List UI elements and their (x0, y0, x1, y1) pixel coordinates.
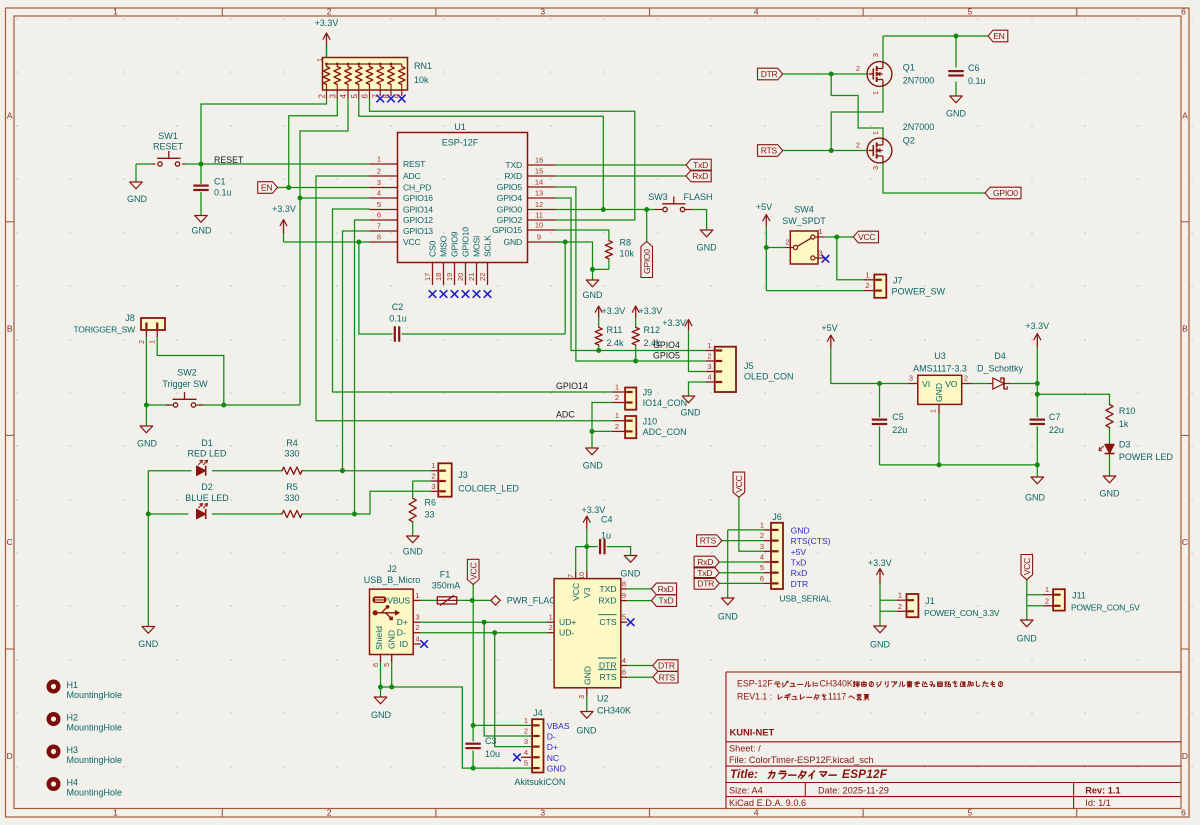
svg-text:Id: 1/1: Id: 1/1 (1085, 798, 1111, 808)
svg-text:22u: 22u (892, 425, 907, 435)
svg-text:GND: GND (192, 226, 213, 236)
svg-text:VBUS: VBUS (387, 596, 410, 606)
svg-text:ADC: ADC (556, 410, 575, 420)
svg-text:Title:: Title: (730, 767, 758, 781)
svg-text:7: 7 (377, 222, 381, 231)
svg-text:MOSI: MOSI (472, 236, 482, 257)
svg-text:C7: C7 (1049, 412, 1061, 422)
svg-text:GPIO2: GPIO2 (497, 215, 523, 225)
svg-text:V3: V3 (582, 587, 592, 598)
svg-text:A: A (1182, 111, 1188, 121)
svg-text:RxD: RxD (697, 557, 713, 567)
svg-text:3: 3 (760, 542, 764, 551)
svg-text:ESP-12F: ESP-12F (442, 138, 479, 148)
svg-text:GPIO13: GPIO13 (403, 226, 433, 236)
svg-text:CH340K: CH340K (820, 679, 853, 689)
svg-text:GPIO10: GPIO10 (461, 227, 471, 257)
svg-text:RXD: RXD (504, 171, 522, 181)
svg-text:J9: J9 (643, 388, 653, 398)
svg-text:POWER_CON_3.3V: POWER_CON_3.3V (924, 608, 1000, 618)
svg-text:1: 1 (898, 591, 902, 600)
svg-text:3: 3 (415, 613, 419, 622)
svg-text:POWER_CON_5V: POWER_CON_5V (1071, 603, 1140, 613)
svg-text:2N7000: 2N7000 (903, 122, 935, 132)
svg-text:350mA: 350mA (432, 581, 461, 591)
svg-text:10k: 10k (620, 249, 635, 259)
svg-text:14: 14 (535, 178, 543, 187)
svg-text:ADC_CON: ADC_CON (643, 427, 687, 437)
svg-text:J11: J11 (1072, 591, 1086, 601)
svg-text:2: 2 (865, 281, 869, 290)
svg-text:Q1: Q1 (903, 63, 915, 73)
svg-text:VCC: VCC (468, 563, 478, 580)
svg-text:4: 4 (754, 7, 759, 17)
svg-text:10k: 10k (414, 75, 429, 85)
svg-text:2: 2 (615, 422, 619, 431)
svg-text:8: 8 (377, 233, 381, 242)
svg-text:VI: VI (922, 379, 930, 389)
svg-text:GND: GND (577, 726, 598, 736)
svg-text:DTR: DTR (791, 579, 809, 589)
svg-text:3: 3 (540, 7, 545, 17)
svg-text:AkitsukiCON: AkitsukiCON (514, 777, 565, 787)
svg-text:GPIO4: GPIO4 (497, 193, 523, 203)
svg-text:GPIO14: GPIO14 (556, 381, 588, 391)
svg-text:3: 3 (524, 737, 528, 746)
svg-text:1: 1 (615, 383, 619, 392)
svg-text:Trigger SW: Trigger SW (162, 379, 208, 389)
svg-text:+5V: +5V (791, 547, 807, 557)
svg-text:+3.3V: +3.3V (1025, 321, 1049, 331)
svg-text:9: 9 (622, 591, 626, 600)
svg-text:TxD: TxD (659, 596, 674, 606)
svg-text:GND: GND (1100, 489, 1121, 499)
svg-text:2: 2 (856, 64, 860, 73)
svg-text:GND: GND (583, 461, 604, 471)
svg-text:Q2: Q2 (903, 136, 915, 146)
svg-text:MountingHole: MountingHole (67, 690, 123, 700)
svg-text:1: 1 (315, 58, 324, 62)
svg-text:B: B (7, 324, 13, 334)
svg-text:1: 1 (707, 341, 711, 350)
svg-text:GND: GND (137, 439, 158, 449)
svg-text:GPIO15: GPIO15 (492, 225, 522, 235)
svg-text:RTS(CTS): RTS(CTS) (791, 536, 831, 546)
svg-text:GND: GND (1025, 493, 1046, 503)
svg-text:GND: GND (791, 525, 810, 535)
svg-text:GND: GND (583, 666, 593, 685)
svg-text:USB_B_Micro: USB_B_Micro (364, 575, 421, 585)
svg-text:RXD: RXD (598, 596, 616, 606)
svg-text:GND: GND (371, 710, 392, 720)
svg-text:2: 2 (1045, 596, 1049, 605)
svg-text:GND: GND (583, 290, 604, 300)
svg-text:MountingHole: MountingHole (67, 755, 123, 765)
svg-text:GND: GND (1017, 634, 1038, 644)
svg-text:5: 5 (622, 613, 626, 622)
svg-text:RTS: RTS (761, 146, 778, 156)
svg-text:ADC: ADC (403, 171, 421, 181)
svg-text:6: 6 (377, 211, 381, 220)
svg-text:VCC: VCC (403, 237, 421, 247)
svg-text:3: 3 (909, 374, 913, 383)
svg-text:R12: R12 (644, 325, 661, 335)
svg-text:UD-: UD- (559, 628, 574, 638)
svg-text:GND: GND (138, 639, 159, 649)
svg-text:12: 12 (535, 200, 543, 209)
svg-text:+3.3V: +3.3V (662, 318, 686, 328)
svg-text:OLED_CON: OLED_CON (744, 372, 794, 382)
svg-text:D2: D2 (201, 482, 213, 492)
svg-text:RED LED: RED LED (187, 449, 227, 459)
svg-text:+3.3V: +3.3V (272, 204, 296, 214)
svg-text:KiCad E.D.A. 9.0.6: KiCad E.D.A. 9.0.6 (729, 798, 806, 808)
svg-text:+3.3V: +3.3V (639, 306, 663, 316)
svg-text:2: 2 (327, 7, 332, 17)
svg-text:6: 6 (361, 94, 370, 99)
svg-text:2: 2 (549, 623, 553, 632)
svg-text:1: 1 (524, 716, 528, 725)
svg-text:RxD: RxD (692, 171, 708, 181)
svg-text:J3: J3 (458, 470, 468, 480)
svg-text:RESET: RESET (214, 155, 244, 165)
svg-text:R11: R11 (607, 325, 623, 335)
svg-text:GND: GND (870, 640, 891, 650)
svg-text:3: 3 (579, 695, 586, 699)
svg-text:VO: VO (945, 379, 958, 389)
svg-text:2: 2 (415, 623, 419, 632)
svg-text:SW4: SW4 (794, 205, 814, 215)
svg-text:11: 11 (535, 211, 543, 220)
svg-text:1: 1 (931, 409, 938, 413)
svg-text:6: 6 (373, 663, 380, 667)
svg-text:2: 2 (856, 141, 860, 150)
svg-text:CH_PD: CH_PD (403, 183, 431, 193)
svg-text:15: 15 (535, 167, 543, 176)
svg-text:R5: R5 (286, 482, 298, 492)
svg-text:GND: GND (620, 569, 641, 579)
svg-text:R8: R8 (620, 238, 632, 248)
svg-text:GND: GND (504, 237, 523, 247)
svg-text:RTS: RTS (659, 672, 676, 682)
svg-text:D3: D3 (1119, 440, 1131, 450)
svg-text:J7: J7 (893, 276, 903, 286)
svg-text:6: 6 (760, 574, 764, 583)
svg-text:17: 17 (423, 273, 432, 281)
svg-text:0.1u: 0.1u (389, 314, 407, 324)
svg-text:SW1: SW1 (158, 131, 178, 141)
svg-text:1: 1 (615, 411, 619, 420)
svg-text:GND: GND (387, 630, 397, 649)
svg-text:RN1: RN1 (414, 61, 432, 71)
svg-text:DTR: DTR (697, 579, 714, 589)
svg-text:C4: C4 (601, 515, 613, 525)
svg-text:GPIO16: GPIO16 (403, 193, 433, 203)
svg-text:J6: J6 (772, 512, 782, 522)
svg-text:1: 1 (431, 461, 435, 470)
svg-text:EN: EN (261, 183, 272, 193)
svg-text:4: 4 (524, 748, 528, 757)
svg-text:1: 1 (113, 7, 118, 17)
svg-text:D4: D4 (994, 351, 1006, 361)
svg-text:GND: GND (127, 194, 148, 204)
svg-text:SW_SPDT: SW_SPDT (782, 216, 826, 226)
svg-text:SCLK: SCLK (483, 235, 493, 257)
svg-text:VBAS: VBAS (547, 721, 570, 731)
svg-text:RTS: RTS (600, 672, 617, 682)
svg-text:GND: GND (946, 109, 967, 119)
svg-text:Rev: 1.1: Rev: 1.1 (1085, 786, 1120, 796)
svg-text:2: 2 (615, 393, 619, 402)
svg-text:3: 3 (431, 482, 435, 491)
svg-text:USB_SERIAL: USB_SERIAL (779, 594, 831, 604)
svg-text:H4: H4 (67, 778, 79, 788)
svg-text:NC: NC (547, 753, 559, 763)
svg-text:5: 5 (384, 663, 391, 667)
svg-text:PWR_FLAG: PWR_FLAG (507, 596, 557, 606)
svg-text:2: 2 (318, 94, 327, 99)
svg-text:1: 1 (549, 613, 553, 622)
svg-text:22u: 22u (1049, 425, 1064, 435)
svg-text:2: 2 (524, 727, 528, 736)
svg-text:D: D (1182, 751, 1188, 761)
svg-text:9: 9 (537, 233, 541, 242)
svg-text:VCC: VCC (1022, 558, 1032, 575)
svg-text:DTR: DTR (599, 661, 617, 671)
svg-text:2: 2 (707, 352, 711, 361)
svg-text:1: 1 (150, 340, 157, 344)
svg-text:SW2: SW2 (177, 368, 197, 378)
svg-text:5: 5 (968, 808, 973, 818)
svg-text:+5V: +5V (821, 323, 837, 333)
svg-text:VCC: VCC (858, 232, 875, 242)
svg-text:TXD: TXD (599, 584, 616, 594)
svg-text:H3: H3 (67, 745, 79, 755)
svg-text:1: 1 (415, 591, 419, 600)
svg-text:1: 1 (113, 808, 118, 818)
svg-text:GND: GND (718, 612, 739, 622)
svg-text:ID: ID (400, 639, 409, 649)
svg-text:3: 3 (707, 362, 711, 371)
svg-text:GPIO9: GPIO9 (450, 231, 460, 257)
svg-text:4: 4 (415, 635, 419, 644)
svg-text:1: 1 (1045, 585, 1049, 594)
svg-text:2N7000: 2N7000 (903, 76, 935, 86)
svg-text:3: 3 (818, 249, 822, 258)
svg-text:5: 5 (350, 94, 359, 99)
svg-text:D-: D- (397, 628, 406, 638)
svg-text:RTS: RTS (700, 536, 717, 546)
svg-text:CTS: CTS (599, 617, 616, 627)
svg-text:4: 4 (377, 189, 381, 198)
svg-text:6: 6 (1181, 808, 1186, 818)
svg-text:13: 13 (535, 189, 543, 198)
svg-text:9: 9 (393, 94, 402, 99)
svg-text:8: 8 (382, 94, 391, 99)
svg-text:File: ColorTimer-ESP12F.kicad_: File: ColorTimer-ESP12F.kicad_sch (729, 755, 874, 765)
svg-text:33: 33 (425, 510, 435, 520)
svg-text:1117: 1117 (828, 692, 846, 702)
svg-text:J8: J8 (125, 313, 135, 323)
svg-text:VCC: VCC (571, 583, 581, 601)
svg-text:1: 1 (760, 520, 764, 529)
svg-text:DTR: DTR (658, 661, 675, 671)
svg-text:D: D (7, 751, 13, 761)
svg-text:2: 2 (785, 238, 789, 247)
svg-text:+3.3V: +3.3V (582, 505, 606, 515)
svg-text:TXD: TXD (505, 160, 522, 170)
svg-text:GND: GND (934, 383, 944, 402)
svg-text:Sheet: /: Sheet: / (729, 744, 761, 754)
svg-text:C: C (7, 537, 13, 547)
svg-text:J2: J2 (387, 564, 397, 574)
svg-text:EN: EN (993, 31, 1004, 41)
svg-text:GPIO0: GPIO0 (497, 205, 523, 215)
svg-text:TORIGGER_SW: TORIGGER_SW (73, 325, 136, 335)
svg-text:FLASH: FLASH (683, 192, 712, 202)
svg-text:GPIO14: GPIO14 (403, 205, 433, 215)
svg-text:GND: GND (681, 408, 702, 418)
svg-text:J4: J4 (533, 708, 543, 718)
svg-text:J5: J5 (744, 361, 754, 371)
svg-text:2: 2 (964, 374, 968, 383)
svg-text:RESET: RESET (153, 142, 184, 152)
svg-text:3: 3 (873, 166, 880, 170)
svg-text:TxD: TxD (697, 568, 712, 578)
svg-text:AMS1117-3.3: AMS1117-3.3 (913, 364, 967, 374)
svg-text:2: 2 (898, 602, 902, 611)
svg-text:C: C (1182, 537, 1188, 547)
svg-text:H1: H1 (67, 680, 79, 690)
svg-text:4: 4 (754, 808, 759, 818)
svg-text:5: 5 (524, 759, 528, 768)
svg-text:A: A (7, 111, 13, 121)
svg-text:H2: H2 (67, 713, 79, 723)
svg-text:C6: C6 (968, 63, 980, 73)
svg-text:6: 6 (1181, 7, 1186, 17)
svg-text:3: 3 (540, 808, 545, 818)
svg-text:GND: GND (697, 243, 718, 253)
svg-text:19: 19 (445, 273, 454, 281)
svg-text:2: 2 (431, 472, 435, 481)
svg-text:7: 7 (568, 574, 575, 578)
svg-text:POWER_SW: POWER_SW (892, 287, 946, 297)
svg-text:U3: U3 (934, 351, 946, 361)
svg-text:18: 18 (434, 273, 443, 281)
svg-text:1: 1 (865, 270, 869, 279)
svg-text:2: 2 (760, 531, 764, 540)
svg-text:CS0: CS0 (428, 240, 438, 257)
svg-text:GPIO5: GPIO5 (653, 351, 680, 361)
svg-text:GPIO12: GPIO12 (403, 215, 433, 225)
svg-text:4: 4 (760, 553, 764, 562)
svg-text:1k: 1k (1119, 419, 1129, 429)
svg-text:CH340K: CH340K (597, 706, 631, 716)
svg-text:8: 8 (622, 579, 626, 588)
svg-text:C1: C1 (214, 177, 226, 187)
svg-text:IO14_CON: IO14_CON (643, 398, 688, 408)
svg-text:Date: 2025-11-29: Date: 2025-11-29 (818, 786, 889, 796)
svg-text:VCC: VCC (734, 475, 744, 492)
svg-text:RxD: RxD (791, 568, 808, 578)
svg-text:4: 4 (707, 373, 711, 382)
svg-text:5: 5 (760, 563, 764, 572)
svg-text:20: 20 (456, 273, 465, 281)
svg-text:3: 3 (377, 178, 381, 187)
svg-text:+3.3V: +3.3V (315, 18, 339, 28)
svg-text:D_Schottky: D_Schottky (977, 364, 1024, 374)
svg-text:3: 3 (328, 94, 337, 99)
svg-text:1u: 1u (601, 531, 611, 541)
svg-text:GND: GND (547, 764, 566, 774)
svg-text:ESP-12F: ESP-12F (737, 679, 773, 689)
svg-text:C5: C5 (892, 412, 904, 422)
svg-text:+5V: +5V (756, 202, 772, 212)
svg-text:B: B (1182, 324, 1188, 334)
svg-text:Size: A4: Size: A4 (729, 786, 763, 796)
svg-text:21: 21 (467, 273, 476, 281)
svg-text:C2: C2 (392, 302, 404, 312)
svg-text:D1: D1 (201, 438, 213, 448)
svg-text:ESP12F: ESP12F (842, 767, 888, 781)
svg-text:TxD: TxD (791, 558, 807, 568)
svg-text:3: 3 (873, 53, 880, 57)
svg-text:BLUE LED: BLUE LED (185, 493, 229, 503)
svg-text:D-: D- (547, 732, 556, 742)
svg-text:REST: REST (403, 159, 426, 169)
svg-text:16: 16 (535, 156, 543, 165)
svg-text:POWER LED: POWER LED (1119, 452, 1174, 462)
svg-text:10u: 10u (485, 749, 500, 759)
svg-text:UD+: UD+ (559, 617, 576, 627)
svg-text:U1: U1 (454, 122, 466, 132)
svg-text:2.4k: 2.4k (607, 338, 625, 348)
svg-text:MountingHole: MountingHole (67, 788, 123, 798)
svg-text:1: 1 (873, 131, 880, 135)
svg-text:KUNI-NET: KUNI-NET (730, 727, 775, 738)
svg-text:R4: R4 (286, 438, 298, 448)
svg-text:DTR: DTR (761, 69, 778, 79)
svg-text:4: 4 (622, 656, 626, 665)
svg-text:GPIO0: GPIO0 (642, 249, 652, 274)
svg-text:1: 1 (377, 155, 381, 164)
svg-text:D+: D+ (547, 742, 558, 752)
svg-text:GND: GND (403, 547, 424, 557)
svg-text:6: 6 (622, 668, 626, 677)
svg-text:0.1u: 0.1u (968, 76, 986, 86)
svg-text:GPIO4: GPIO4 (653, 340, 680, 350)
svg-text:TxD: TxD (693, 160, 708, 170)
svg-text:RxD: RxD (658, 584, 674, 594)
svg-text:J1: J1 (925, 596, 935, 606)
svg-text:F1: F1 (440, 570, 451, 580)
svg-text:+3.3V: +3.3V (868, 558, 892, 568)
svg-text:10: 10 (579, 572, 586, 580)
svg-text:330: 330 (284, 449, 299, 459)
svg-text:22: 22 (478, 273, 487, 281)
svg-text:1: 1 (818, 227, 822, 236)
svg-text:5: 5 (968, 7, 973, 17)
svg-text:Shield: Shield (374, 626, 384, 650)
svg-text:COLOER_LED: COLOER_LED (458, 484, 519, 494)
svg-text:U2: U2 (597, 694, 609, 704)
svg-text:7: 7 (371, 94, 380, 99)
svg-text:2: 2 (377, 167, 381, 176)
svg-text:1: 1 (873, 91, 880, 95)
svg-text:R10: R10 (1119, 406, 1136, 416)
svg-text:0.1u: 0.1u (214, 188, 232, 198)
svg-text:2: 2 (139, 340, 146, 344)
